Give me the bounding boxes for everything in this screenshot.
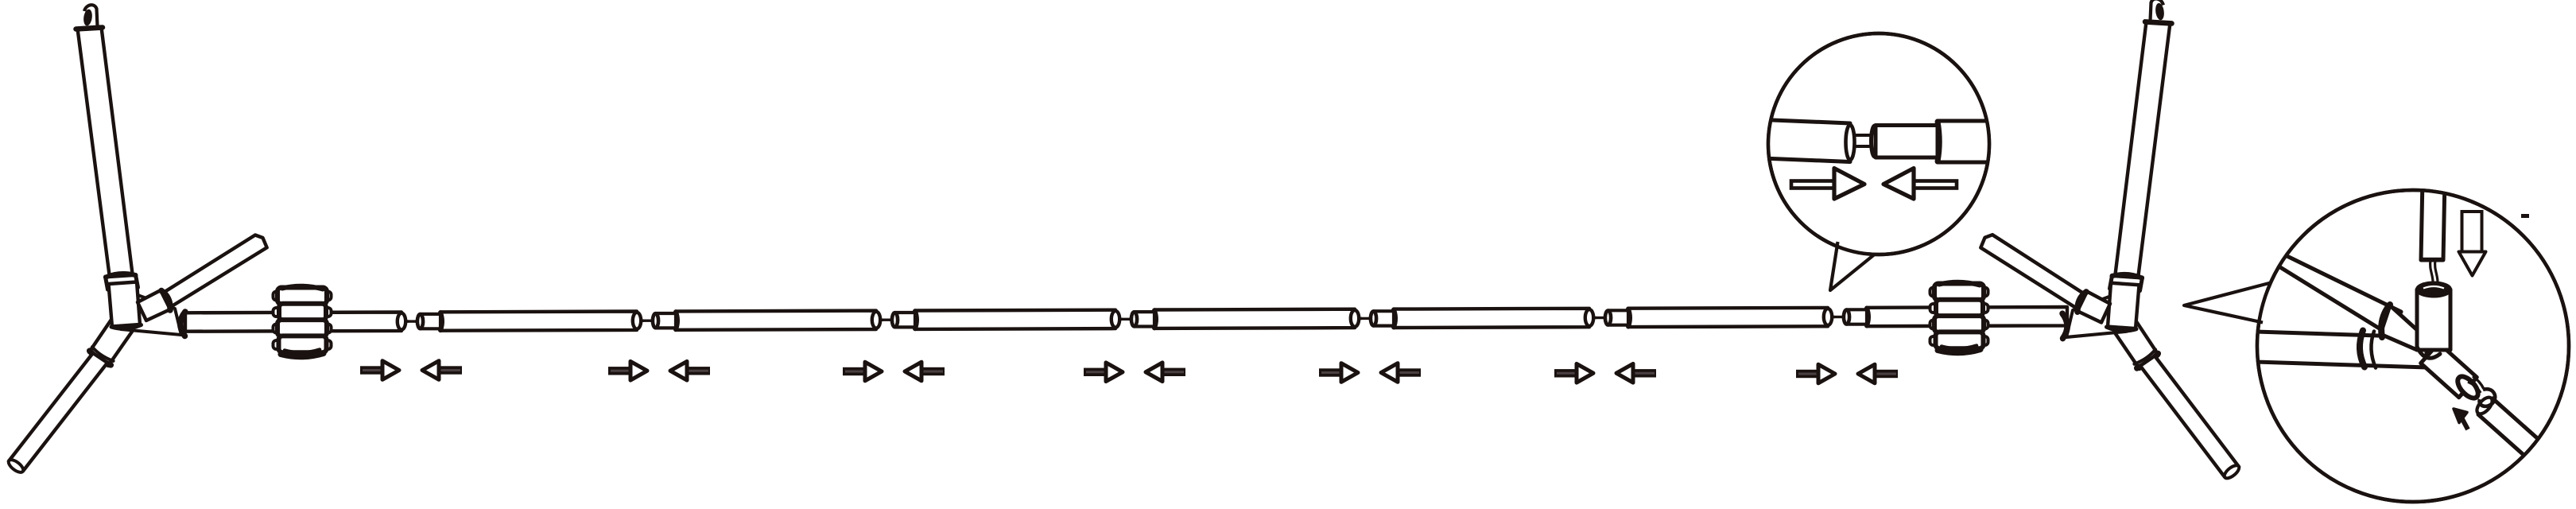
push-together arrows at x=2019: [1554, 369, 1579, 377]
right callout tail: [2184, 282, 2271, 323]
push-together arrows at x=829: [608, 367, 633, 375]
magnified diagonal arm: [2260, 247, 2401, 334]
small insert arrow: [2462, 418, 2468, 429]
pole joint coupling at x=2021: [1585, 309, 1593, 326]
pole joint coupling at x=1124: [872, 312, 880, 328]
left knurled knob: [274, 286, 332, 357]
brace cone socket: [138, 290, 170, 321]
upper callout tail: [1830, 242, 1875, 290]
socket open end: [2454, 373, 2482, 402]
callout right-push arrow: [1791, 181, 1834, 188]
top hook: [83, 9, 93, 26]
pole joint coupling at x=527: [398, 313, 405, 330]
bar segment 1: [440, 312, 637, 331]
right callout circle: [2257, 190, 2569, 502]
callout right tube: [1938, 121, 1997, 162]
upper callout circle: [1768, 33, 1989, 254]
magnified upper tube: [2421, 179, 2445, 260]
bar segment 3: [915, 310, 1115, 329]
crossbar end collar: [180, 312, 185, 336]
bar segment 7: [1867, 307, 2067, 326]
pole joint coupling at x=2321: [1824, 309, 1832, 325]
magnified leg tube: [2478, 398, 2543, 460]
upright pole: [78, 28, 133, 275]
push-together arrows at x=1427: [1084, 368, 1108, 376]
dark socket opening: [2417, 283, 2450, 297]
bar segment 6: [1628, 308, 1828, 327]
right knurled knob: [1930, 282, 1988, 353]
leg socket sleeve: [89, 310, 138, 366]
junction vertical sleeve: [109, 282, 141, 327]
magnified vertical cylinder: [2417, 289, 2450, 350]
callout left-push arrow: [1914, 181, 1957, 188]
bar segment 0: [185, 313, 402, 332]
shock cord upper: [2431, 260, 2434, 285]
leg collar band: [90, 351, 111, 365]
left stand group: [6, 5, 266, 475]
bar segment 5: [1394, 309, 1589, 328]
upper pole collar: [106, 275, 138, 290]
pole joint coupling at x=823: [633, 313, 641, 329]
lower-right socket: [2421, 343, 2477, 397]
lower leg tube: [9, 353, 107, 471]
shock cord loop: [2468, 382, 2481, 393]
callout right tube neck: [1876, 126, 1938, 158]
callout cord pin: [1856, 134, 1873, 137]
arm collar: [2360, 331, 2365, 367]
diagonal brace arm: [158, 235, 267, 309]
bar segment 4: [1154, 309, 1355, 328]
pole top cap: [76, 28, 103, 29]
bar segment 2: [676, 311, 876, 330]
magnified cone socket: [2380, 305, 2423, 350]
pole joint coupling at x=1425: [1111, 311, 1119, 328]
right stand (mirrored): [1980, 0, 2240, 480]
junction core: [119, 293, 181, 335]
big down arrow: [2462, 212, 2482, 252]
push-together arrows at x=1124: [843, 367, 867, 375]
leg end cap: [6, 457, 25, 474]
dash mark: [2521, 214, 2529, 218]
push-together arrows at x=2323: [1796, 370, 1821, 378]
pole joint coupling at x=1726: [1351, 310, 1359, 327]
magnified horizontal arm: [2256, 332, 2427, 367]
push-together arrows at x=517: [360, 366, 385, 374]
callout left tube: [1763, 120, 1850, 162]
push-together arrows at x=1723: [1319, 368, 1344, 376]
